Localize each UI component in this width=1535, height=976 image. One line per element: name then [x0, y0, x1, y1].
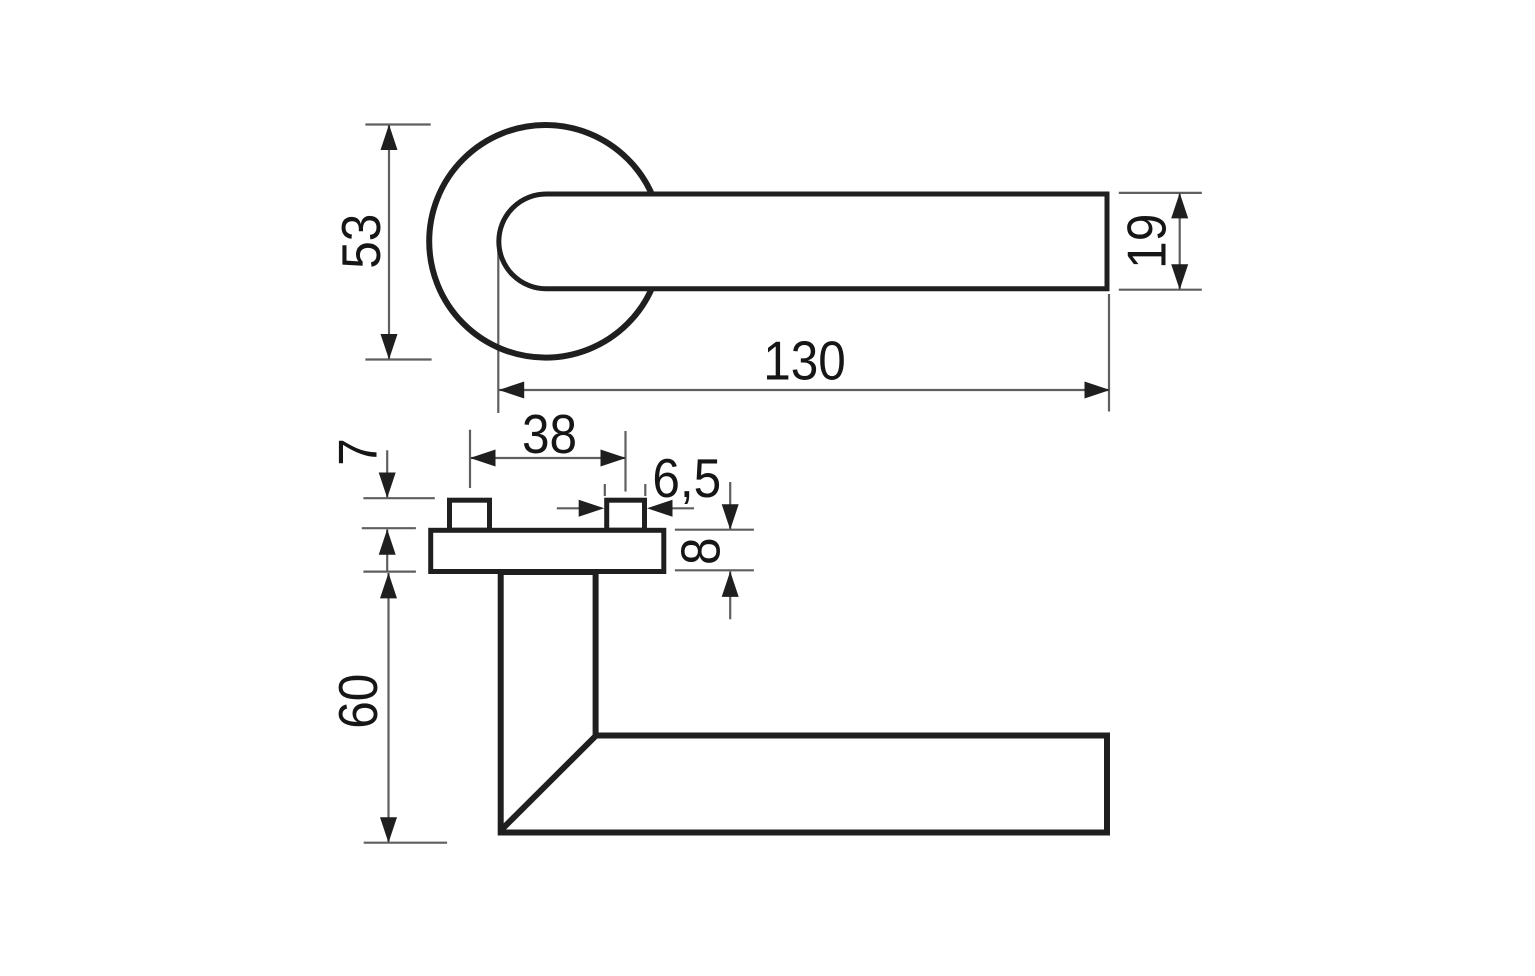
- dim 60: extension line at plate bottom: [363, 570, 416, 572]
- left fixing peg (side view): [450, 500, 490, 530]
- dim 38: left arrowhead: [470, 450, 496, 467]
- dim 19: bottom extension line: [1119, 289, 1202, 291]
- dim 60: bottom extension line: [364, 842, 447, 844]
- dim 38: label: [522, 405, 577, 466]
- svg-text:130: 130: [763, 331, 846, 392]
- dim 7: upper leader line: [386, 450, 388, 498]
- dim 7: upper arrowhead (points down): [379, 473, 396, 499]
- dim 19: dimension line: [1179, 193, 1181, 290]
- extension line: lever left edge down to dim 130: [497, 242, 499, 413]
- dim 60: dimension line: [387, 573, 389, 843]
- dim 7: extension line at plate top: [362, 527, 416, 529]
- lever handle bar (top view): [499, 194, 1107, 289]
- dim 53: top arrowhead: [381, 125, 398, 151]
- dim 8: upper arrowhead (points down): [722, 504, 739, 530]
- dim 19: bottom arrowhead: [1171, 264, 1188, 290]
- dim 7: extension line at peg top: [363, 497, 434, 499]
- dim 6,5: left ext tick above peg: [604, 484, 606, 496]
- dim 38: left extension line: [469, 430, 471, 488]
- dim 8: bottom extension line: [675, 569, 754, 571]
- svg-text:8: 8: [671, 538, 732, 566]
- dim 53: bottom arrowhead: [381, 334, 398, 360]
- dim 8: top extension line: [675, 529, 754, 531]
- dim 130: dimension line: [499, 389, 1110, 391]
- dim 53: top extension line: [365, 123, 430, 125]
- dim 7: lower leader line: [386, 529, 388, 572]
- dim 38: right arrowhead: [601, 450, 627, 467]
- dim 6,5: right arrowhead (points left): [647, 500, 673, 517]
- dim 130: label: [763, 331, 846, 392]
- bend chamfer diagonal (side view): [501, 736, 596, 831]
- dim 6,5: label: [652, 449, 721, 510]
- dim 38: dimension line: [470, 457, 626, 459]
- dim 6,5: right ext tick above peg: [644, 484, 646, 496]
- dim 7: label: [328, 438, 389, 466]
- dim 8: lower arrowhead (points up): [722, 571, 739, 597]
- svg-text:6,5: 6,5: [652, 449, 721, 510]
- svg-text:19: 19: [1117, 214, 1178, 269]
- svg-text:53: 53: [332, 214, 393, 269]
- svg-text:7: 7: [328, 438, 389, 466]
- handle neck and grip bar (side view), L-shape: [501, 572, 1107, 833]
- dim 6,5: left arrowhead (points right): [579, 500, 605, 517]
- dim 53: label: [332, 214, 393, 269]
- dim 130: left arrowhead: [499, 382, 525, 399]
- rose plate (side view): [431, 530, 664, 571]
- dim 60: top arrowhead: [380, 573, 397, 599]
- dim 130: right arrowhead: [1085, 382, 1111, 399]
- dim 19: top arrowhead: [1171, 193, 1188, 219]
- dim 6,5: left leader line: [557, 507, 581, 509]
- dim 60: label: [329, 674, 390, 729]
- dim 53: bottom extension line: [365, 358, 431, 360]
- rose circle (top view): [429, 125, 662, 358]
- svg-text:60: 60: [329, 674, 390, 729]
- dim 7: lower arrowhead (points up): [379, 529, 396, 555]
- dim 60: bottom arrowhead: [380, 817, 397, 843]
- dim 8: lower leader line: [729, 571, 731, 619]
- extension line: lever right edge down to dim 130: [1108, 294, 1110, 412]
- dim 8: upper leader line: [729, 482, 731, 530]
- dim 19: top extension line: [1119, 192, 1202, 194]
- dim 19: label: [1117, 214, 1178, 269]
- right fixing peg (side view): [607, 500, 645, 530]
- dim 6,5: right leader line: [673, 507, 695, 509]
- dim 38: right extension line: [624, 431, 626, 492]
- dim 8: label: [671, 538, 732, 566]
- dim 53: dimension line: [388, 125, 390, 360]
- svg-text:38: 38: [522, 405, 577, 466]
